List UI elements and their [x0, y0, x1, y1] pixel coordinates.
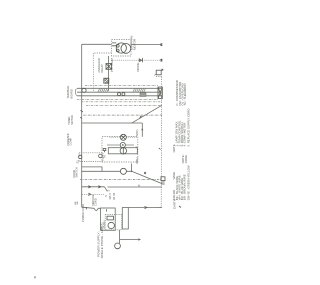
- svg-text:RELAY: RELAY: [100, 64, 104, 73]
- svg-text:DIODE: DIODE: [136, 63, 140, 72]
- svg-text:COMP: COMP: [69, 137, 73, 145]
- svg-text:EARTH: EARTH: [173, 199, 177, 209]
- svg-text:S(BK): S(BK): [136, 129, 139, 136]
- svg-text:SWITCH: SWITCH: [75, 167, 79, 177]
- svg-text:BOARD: BOARD: [69, 89, 73, 98]
- svg-text:NOTE: NOTE: [172, 144, 176, 152]
- svg-text:115 V: 115 V: [109, 193, 112, 200]
- svg-text:S: S: [107, 190, 111, 192]
- svg-text:5. REPLACE SUPPLY CORD: 5. REPLACE SUPPLY CORD: [186, 109, 190, 147]
- svg-text:60 HZ: 60 HZ: [113, 192, 116, 199]
- svg-text:WH: WH: [77, 200, 79, 204]
- svg-text:S: S: [104, 195, 108, 197]
- svg-text:PTC START: PTC START: [110, 57, 114, 72]
- svg-text:GN-YE : GREEN-YELLOW: GN-YE : GREEN-YELLOW: [186, 165, 190, 200]
- svg-text:R(BU): R(BU): [136, 157, 139, 164]
- svg-text:CORD: CORD: [93, 198, 97, 206]
- svg-text:MOTOR: MOTOR: [70, 115, 74, 125]
- svg-text:CODE: CODE: [184, 155, 188, 163]
- svg-text:TH : THERMOST: TH : THERMOST: [183, 83, 187, 106]
- svg-text:MOTOR: MOTOR: [132, 38, 136, 50]
- svg-text:POWER CORD: POWER CORD: [81, 204, 85, 222]
- svg-text:SINGLE PHASE - 115V: SINGLE PHASE - 115V: [100, 225, 104, 258]
- svg-text:TH: TH: [103, 155, 106, 158]
